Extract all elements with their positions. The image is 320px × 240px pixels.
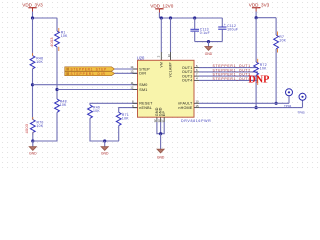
port STEPPER1_DIR [65,71,115,76]
pin OUT3 [182,72,199,78]
pin VM (top) [167,54,173,78]
svg-text:DRV8816PWR: DRV8816PWR [181,119,211,123]
svg-text:EP: EP [162,111,166,117]
wire SM1 [57,89,138,91]
svg-text:17: 17 [161,119,165,123]
svg-text:SM0: SM0 [139,83,147,87]
resistor R49 [88,105,101,118]
gnd stub mid [104,141,106,147]
junction left rail top [31,16,34,19]
svg-text:15: 15 [196,104,200,108]
gnd stub caps [208,42,210,47]
pin RESET [132,100,153,106]
svg-text:GND: GND [29,152,37,156]
svg-text:4003: 4003 [49,37,54,47]
junction SM1 [55,88,58,91]
junction bottom-left [31,139,34,142]
junction VM drop [169,16,172,19]
gnd stub ic [160,134,162,150]
svg-text:DIR: DIR [139,72,146,76]
junction nHOME [255,106,258,109]
pin DIR [130,70,146,76]
svg-text:VM: VM [159,62,163,68]
gnd stub bottom-left [32,141,34,147]
svg-text:13: 13 [130,70,134,74]
pin OUT2 [182,68,199,74]
capacitor C112 [218,18,238,42]
junction mid gnd [103,139,106,142]
pin nENBL [132,104,152,110]
resistor R46 [30,53,43,71]
svg-text:16: 16 [167,54,171,58]
wire top bus [159,17,222,19]
power port VDD_12V0 [150,3,173,18]
pin STEP [130,65,150,71]
svg-text:GND: GND [205,52,213,56]
svg-text:VDD_3V3: VDD_3V3 [249,2,270,7]
wire RESET [90,103,138,105]
power port VDD_3V3 (left) [22,2,43,18]
ground (ic) [157,149,165,159]
wire SM0 [33,84,138,86]
svg-text:STEPPER1_STEP: STEPPER1_STEP [71,68,108,72]
resistor R7 [274,32,287,53]
junction caps gnd [207,40,210,43]
svg-text:0.1uF: 0.1uF [200,31,210,35]
svg-text:VCLAMP: VCLAMP [169,62,173,78]
wire port DIR to pin [115,72,138,74]
svg-text:10K: 10K [61,34,68,38]
svg-text:+: + [224,23,226,27]
ground (mid-left) [101,147,109,156]
power port VDD_3V3 (right) [249,2,270,17]
wire port STEP to pin [115,68,138,70]
wire VCP vertical [160,18,162,52]
wire left rail bottom [32,132,34,141]
ground (bottom-left) [29,147,37,156]
junction C113 [193,16,196,19]
svg-text:VDD_12V0: VDD_12V0 [150,3,173,8]
wire nFAULT [199,102,289,104]
wire gnd pins bracket [157,122,164,134]
junction VCP drop [160,16,163,19]
wire R7 to nFAULT [275,49,277,103]
wire top-left horizontal [33,17,58,19]
wire R49 to gnd rail [90,118,119,141]
svg-text:10K: 10K [60,103,67,107]
resistor R71 [116,112,129,125]
resistor R48 [55,99,67,112]
svg-text:nHOME: nHOME [178,106,192,110]
wire OUT3 [199,75,258,77]
wire nHOME [199,107,303,109]
svg-text:10K: 10K [37,124,44,128]
ground (caps) [205,47,213,56]
svg-text:10K: 10K [122,117,129,121]
wire R71 down [118,126,120,141]
svg-text:U20: U20 [137,55,145,60]
pin nHOME [178,104,199,110]
resistor R1 [49,28,68,51]
wire left rail upper [32,18,34,56]
IC U20 DRV8846 [137,55,212,123]
svg-text:STEPPER1_OUT4: STEPPER1_OUT4 [213,77,251,81]
pin SM0 [131,81,148,87]
wire OUT4 [199,79,258,81]
junction nFAULT [275,102,278,105]
wire right rail mid [56,47,58,99]
pin EP (bottom) [161,111,167,123]
wire left rail mid [32,69,34,120]
pin GND2 (bottom) [157,107,163,122]
svg-text:10K: 10K [279,39,286,43]
svg-text:12: 12 [130,86,134,90]
wire R72 to nHOME [255,75,257,107]
wire R7 drop [275,18,277,35]
pin OUT4 [182,77,199,83]
wire right power horizontal [256,17,276,19]
svg-text:10K: 10K [260,67,267,71]
wire right rail top [56,18,58,31]
resistor R79 [24,117,44,135]
svg-text:4003: 4003 [24,123,29,133]
svg-text:GND: GND [157,155,165,159]
wire gnd mid pin [160,122,162,134]
svg-text:TP05: TP05 [298,110,306,114]
svg-text:10K: 10K [36,60,43,64]
svg-text:SM1: SM1 [139,88,147,92]
pin VCP (top) [157,55,164,67]
capacitor C113 [190,18,210,42]
wire OUT1 [199,67,258,69]
pin SM1 [130,86,147,92]
wire caps bottom [195,41,223,43]
junction right power [255,16,258,19]
wire nENBL [119,108,138,113]
wire VM vertical [170,18,172,52]
test point TP04 [284,89,293,108]
svg-text:nENBL: nENBL [139,106,152,110]
svg-text:STEPPER1_DIR: STEPPER1_DIR [71,72,106,76]
junction SM0 [31,83,34,86]
test point TP05 [298,93,307,114]
wire OUT2 [199,71,258,73]
resistor R72 (DNP) [254,59,267,85]
svg-text:TP04: TP04 [284,104,292,108]
svg-text:DNP: DNP [248,74,269,85]
svg-text:GND: GND [101,152,109,156]
port STEPPER1_STEP [65,67,115,72]
svg-text:OUT4: OUT4 [182,79,193,83]
svg-text:10K: 10K [93,109,100,113]
pin GND1 (bottom) [153,107,159,122]
svg-text:VDD_3V3: VDD_3V3 [22,2,43,7]
junction gnd bracket [159,132,162,135]
svg-text:100uF: 100uF [227,28,238,32]
svg-text:11: 11 [131,81,134,85]
wire DNP drop [255,18,257,62]
pin OUT1 [182,64,199,70]
pin nFAULT [178,100,199,106]
wire right rail bottom [33,112,57,141]
